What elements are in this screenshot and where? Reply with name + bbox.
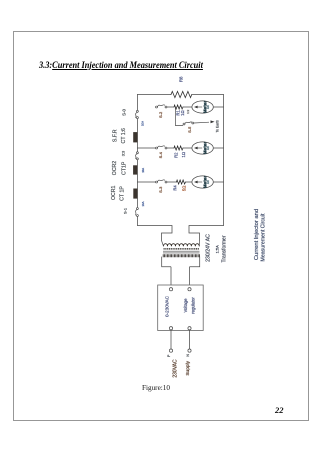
svg-text:10A: 10A [141,201,145,206]
svg-text:R4: R4 [173,185,178,191]
svg-text:S-0: S-0 [121,109,126,116]
svg-text:Transformer: Transformer [222,235,228,262]
svg-text:230VAC: 230VAC [173,359,179,378]
svg-text:Current Injector and: Current Injector and [254,209,260,260]
svg-text:Measurement Circuit: Measurement Circuit [261,213,267,261]
svg-text:N: N [186,354,190,357]
svg-text:1Ω: 1Ω [181,152,186,157]
svg-text:1Ω: 1Ω [180,110,185,115]
svg-text:P: P [167,354,171,357]
svg-text:To Earth: To Earth [216,120,220,133]
svg-text:S-5: S-5 [187,126,192,133]
svg-text:R2: R2 [174,152,179,158]
svg-text:CT 1P: CT 1P [120,186,126,201]
svg-text:CT1P: CT1P [122,161,128,175]
svg-text:R8: R8 [179,76,184,82]
svg-text:CT 1:6: CT 1:6 [121,128,127,144]
svg-text:1:5A: 1:5A [214,245,219,254]
svg-text:10A: 10A [141,168,145,173]
svg-text:3:3: 3:3 [121,150,126,156]
svg-text:10A: 10A [140,121,144,126]
svg-text:S-4: S-4 [158,151,163,158]
svg-text:S-1: S-1 [123,208,127,214]
svg-text:1:2: 1:2 [186,109,190,114]
svg-text:5Ω: 5Ω [182,186,187,191]
svg-text:regulator: regulator [191,297,196,314]
svg-text:S-3: S-3 [158,186,163,193]
svg-text:Voltage: Voltage [183,298,188,313]
svg-text:S-2: S-2 [158,111,163,118]
svg-text:0-230VAC: 0-230VAC [165,295,170,317]
svg-text:OCR2: OCR2 [112,161,118,176]
svg-text:OCR1: OCR1 [111,185,117,200]
svg-text:230/24V AC: 230/24V AC [206,234,212,262]
svg-text:S.F.R: S.F.R [113,129,119,142]
svg-text:Supply: Supply [185,360,191,375]
